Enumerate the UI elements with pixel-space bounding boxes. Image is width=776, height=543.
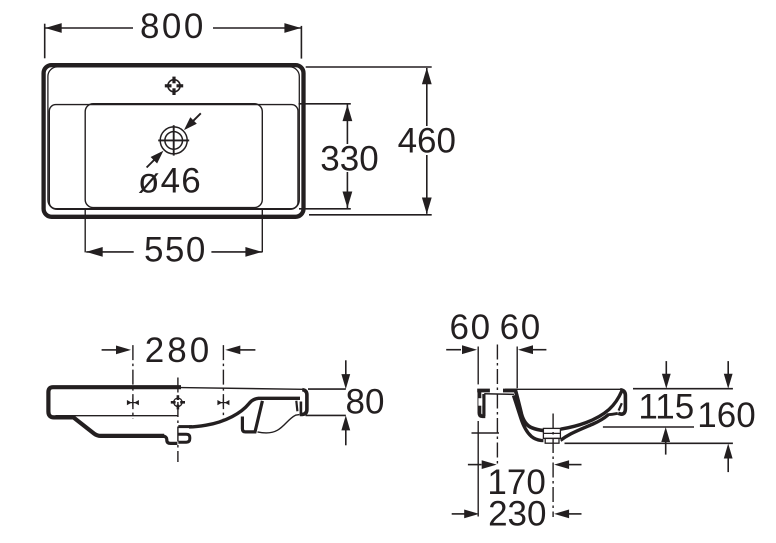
svg-text:550: 550 [144, 231, 207, 270]
svg-text:230: 230 [488, 494, 546, 533]
svg-text:60: 60 [450, 308, 492, 347]
svg-text:280: 280 [145, 331, 212, 370]
svg-text:80: 80 [346, 383, 385, 422]
svg-text:460: 460 [398, 122, 456, 161]
svg-text:800: 800 [140, 7, 206, 46]
svg-text:330: 330 [320, 139, 378, 178]
svg-text:60: 60 [500, 308, 542, 347]
svg-text:ø46: ø46 [138, 162, 202, 201]
svg-text:160: 160 [697, 396, 755, 435]
svg-text:115: 115 [638, 388, 694, 427]
